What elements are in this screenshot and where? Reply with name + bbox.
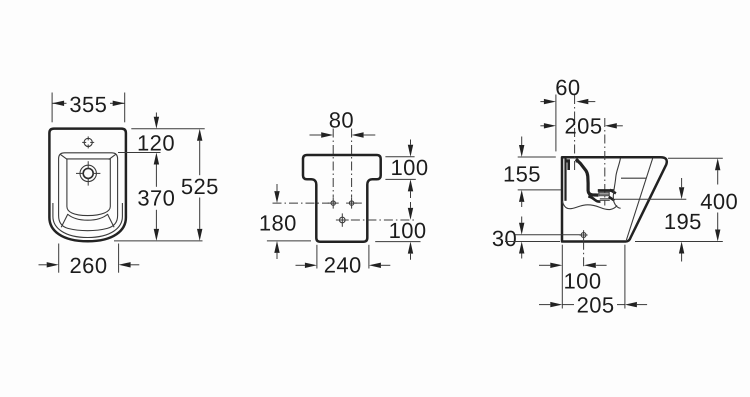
- dimension 30: [521, 217, 523, 223]
- extension line top right: [385, 156, 414, 158]
- drain lower ribs: [600, 198, 610, 200]
- bidet outer rim outline: [49, 129, 126, 242]
- corner chamfer left: [60, 154, 67, 159]
- rim section top bar left: [566, 159, 570, 162]
- extension line top right: [668, 157, 723, 159]
- wall datum line: [555, 95, 557, 152]
- svg-text:400: 400: [700, 189, 738, 214]
- fixing hole marker left: [331, 201, 335, 205]
- extension line 355 right: [124, 93, 126, 123]
- extension line bottom right of body: [375, 241, 420, 243]
- centerline fixing hole right: [351, 129, 353, 198]
- shelf diagonal right: [108, 214, 115, 227]
- corner chamfer right: [109, 154, 116, 159]
- extension line bottom right: [635, 241, 723, 243]
- drain hole marker: [340, 217, 346, 223]
- extension line front bottom: [624, 245, 626, 309]
- dimension 195: [681, 178, 683, 187]
- dimension 240: [296, 264, 305, 266]
- inner front wall diagonal: [626, 159, 652, 241]
- dimension 100 upper: [410, 140, 412, 145]
- svg-text:155: 155: [503, 161, 541, 186]
- extension line overflow level: [518, 189, 561, 191]
- inlet centerline below: [583, 241, 585, 267]
- dimension 260: [39, 264, 47, 266]
- drain ribs: [599, 192, 609, 194]
- rim channel lower shelf: [588, 196, 600, 201]
- extension line bottom left of body: [267, 240, 311, 242]
- bowl front inner wall curve: [613, 159, 620, 209]
- dimension 355: [52, 102, 66, 104]
- bowl rear opening line: [621, 177, 646, 179]
- extension line back bottom: [561, 245, 563, 309]
- drain centerline to right: [351, 219, 415, 221]
- svg-text:370: 370: [137, 186, 175, 211]
- extension line bottom: [114, 240, 203, 242]
- svg-text:205: 205: [577, 293, 615, 318]
- dimension 525: [197, 129, 202, 141]
- bidet rear outline: [303, 155, 381, 242]
- shelf diagonal left: [61, 214, 67, 227]
- dimension 180: [276, 184, 278, 191]
- rim channel wall: [576, 159, 598, 195]
- centerline fixing hole left: [332, 129, 334, 198]
- bowl outer contour: [59, 153, 118, 231]
- drain lower right thick: [609, 197, 615, 201]
- dimension 370: [154, 153, 159, 165]
- svg-text:100: 100: [391, 155, 429, 180]
- inlet centerline: [574, 95, 576, 171]
- svg-text:60: 60: [555, 75, 580, 100]
- extension line 355 left: [51, 93, 53, 123]
- dimension 155: [521, 137, 523, 146]
- svg-text:355: 355: [69, 92, 107, 117]
- svg-text:195: 195: [664, 209, 702, 234]
- svg-text:100: 100: [564, 268, 602, 293]
- extension line 240 right: [368, 245, 370, 269]
- extension line top (level of rim top): [131, 128, 204, 130]
- extension line shoulder right: [385, 178, 415, 180]
- bidet side outline: [562, 157, 667, 241]
- drain top bar: [598, 189, 615, 192]
- wavy break line: [562, 201, 617, 209]
- svg-text:525: 525: [181, 174, 219, 199]
- dimension 100 lower: [410, 202, 412, 208]
- extension line at bowl top: [118, 152, 161, 154]
- dimension 205 bottom: [539, 304, 550, 306]
- outlet level line: [615, 198, 687, 200]
- dimension 120: [155, 113, 157, 118]
- extension line 240 left: [316, 245, 318, 269]
- bowl inner contour: [67, 159, 110, 216]
- fixing hole crosshair: [84, 138, 92, 146]
- svg-text:180: 180: [259, 211, 297, 236]
- tap hole centerline: [604, 118, 606, 206]
- svg-text:80: 80: [329, 107, 354, 132]
- dimension 100 bottom: [539, 264, 550, 266]
- horizontal centerline through fixing holes: [273, 202, 330, 204]
- inlet hole crosshair: [581, 233, 586, 238]
- svg-text:30: 30: [492, 226, 517, 251]
- extension line 260 left: [58, 244, 60, 273]
- tap hole crosshair: [80, 165, 96, 181]
- fixing hole marker right: [349, 201, 353, 205]
- svg-text:260: 260: [70, 253, 108, 278]
- svg-text:120: 120: [137, 130, 175, 155]
- rim section back wall: [564, 159, 566, 201]
- svg-text:240: 240: [324, 252, 362, 277]
- drain right thick: [610, 190, 616, 194]
- inner rim offset arc: [53, 203, 123, 238]
- extension line top edge left: [518, 156, 556, 158]
- svg-text:100: 100: [389, 218, 427, 243]
- extension line 260 right: [118, 244, 120, 273]
- rim section top bar right: [576, 159, 579, 162]
- dimension 400: [715, 158, 720, 170]
- svg-text:205: 205: [565, 114, 603, 139]
- bowl front shelf arc: [67, 214, 108, 220]
